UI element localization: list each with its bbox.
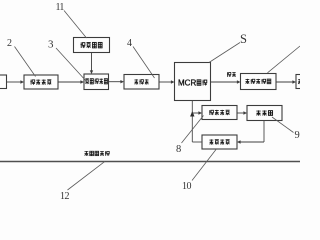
box MCR膜组 (MCR membrane unit) xyxy=(175,63,211,101)
box 加药装置 (dosing device) xyxy=(74,38,110,53)
label 滤液回流管 (filtrate return pipe) xyxy=(84,151,109,156)
label 8 with leader xyxy=(176,116,204,156)
arrow: lift pump to pipeline mixer xyxy=(58,80,84,83)
wire: MCR bottom vertical pipe xyxy=(191,101,193,143)
box 提升水泵 (lift pump) xyxy=(24,75,58,89)
arrow: junction to suction pump xyxy=(192,111,202,114)
wire: filtrate return pipe (full width) xyxy=(0,161,300,163)
box: sludge dewatering (cut at right edge) xyxy=(296,75,312,89)
label 3 with leader xyxy=(48,39,87,83)
svg-text:4: 4 xyxy=(127,38,132,49)
arrow: mixer to reaction tank xyxy=(109,80,125,83)
svg-text:12: 12 xyxy=(60,191,70,200)
box: inlet tank (cut at left edge) xyxy=(0,75,7,89)
arrow: suction pump to product tank xyxy=(237,111,247,114)
arrow: MCR to sludge thickener (排泥) xyxy=(211,80,241,83)
arrow: dosing device down to mixer xyxy=(90,53,93,75)
label 12 with leader xyxy=(60,161,105,202)
box 产水箱 (product water tank) xyxy=(247,106,282,121)
arrow: product tank to backwash pump xyxy=(237,140,264,143)
label S (5) with leader xyxy=(209,32,247,63)
arrow: reaction tank to MCR xyxy=(159,80,175,83)
arrow: up arrowhead on vertical pipe (backwash to MCR) xyxy=(190,111,194,117)
label 4 with leader xyxy=(127,38,155,78)
wire: backwash pump out to vertical pipe xyxy=(192,141,202,143)
label 11 with leader xyxy=(56,2,87,38)
label 9 with leader xyxy=(272,117,300,141)
svg-text:3: 3 xyxy=(48,39,54,51)
box 抽吸水泵 (suction pump) xyxy=(202,106,237,120)
arrow: thickener to dewatering (cut) xyxy=(276,80,296,83)
label 2 with leader xyxy=(7,38,36,77)
label 排泥 (sludge discharge) xyxy=(227,72,236,77)
box 管道混合器 (pipeline mixer) xyxy=(84,74,109,90)
leader to top-right (cut label) xyxy=(268,46,301,73)
arrow: inlet to lift pump xyxy=(7,80,25,83)
svg-text:2: 2 xyxy=(7,38,12,49)
svg-text:S: S xyxy=(240,32,247,46)
svg-text:11: 11 xyxy=(56,2,65,13)
box 反洗水泵 (backwash pump) xyxy=(202,135,237,149)
svg-text:9: 9 xyxy=(295,130,300,141)
svg-text:MCR: MCR xyxy=(178,79,196,88)
label 10 with leader xyxy=(182,150,216,193)
wire: product tank down xyxy=(263,121,265,143)
box 反应池 (reaction tank) xyxy=(124,75,159,90)
box 污泥浓缩槽 (sludge thickening tank) xyxy=(241,74,277,90)
svg-text:8: 8 xyxy=(176,144,181,155)
svg-text:10: 10 xyxy=(182,181,192,192)
